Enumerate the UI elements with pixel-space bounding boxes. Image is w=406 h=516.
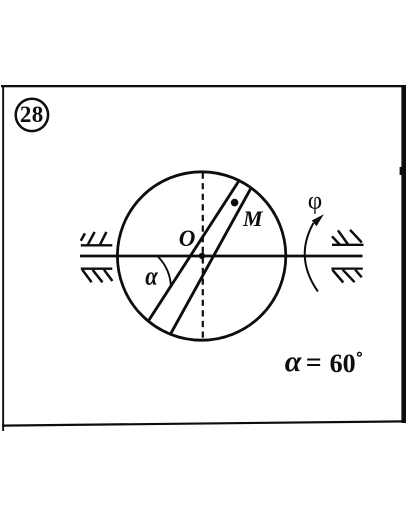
svg-text:28: 28: [20, 102, 43, 127]
frame left border: [2, 85, 4, 431]
phi arrowhead: [312, 214, 324, 226]
point M dot: [231, 199, 239, 207]
angle alpha arc: [158, 257, 171, 288]
degree mark: [358, 352, 362, 356]
left wall top hatches: [81, 232, 107, 245]
svg-text:α: α: [145, 261, 158, 290]
svg-text:φ: φ: [308, 188, 322, 215]
svg-text:α: α: [285, 345, 302, 378]
svg-text:60: 60: [330, 349, 356, 378]
center dot O: [199, 253, 205, 259]
badge circle 28: [16, 99, 48, 131]
right wall bottom line: [331, 267, 362, 269]
right wall bottom hatches: [332, 270, 361, 283]
left wall bottom hatches: [82, 270, 112, 283]
svg-text:=: =: [306, 347, 322, 378]
right wall top hatches: [332, 230, 362, 245]
svg-text:M: M: [242, 206, 264, 231]
frame right border: [401, 85, 406, 423]
svg-text:O: O: [179, 226, 196, 251]
frame right border bump: [400, 167, 402, 175]
left wall bottom line: [81, 268, 113, 270]
frame top border: [1, 85, 406, 87]
phi rotation arrow arc: [305, 223, 318, 292]
dashed vertical diameter: [202, 173, 204, 341]
disk circle: [117, 172, 285, 340]
rod right edge: [171, 189, 251, 333]
rod left edge: [149, 182, 239, 321]
right wall top line: [332, 244, 364, 246]
frame bottom border: [2, 421, 403, 425]
left wall top line: [81, 244, 113, 246]
horizontal axis line: [80, 255, 363, 258]
